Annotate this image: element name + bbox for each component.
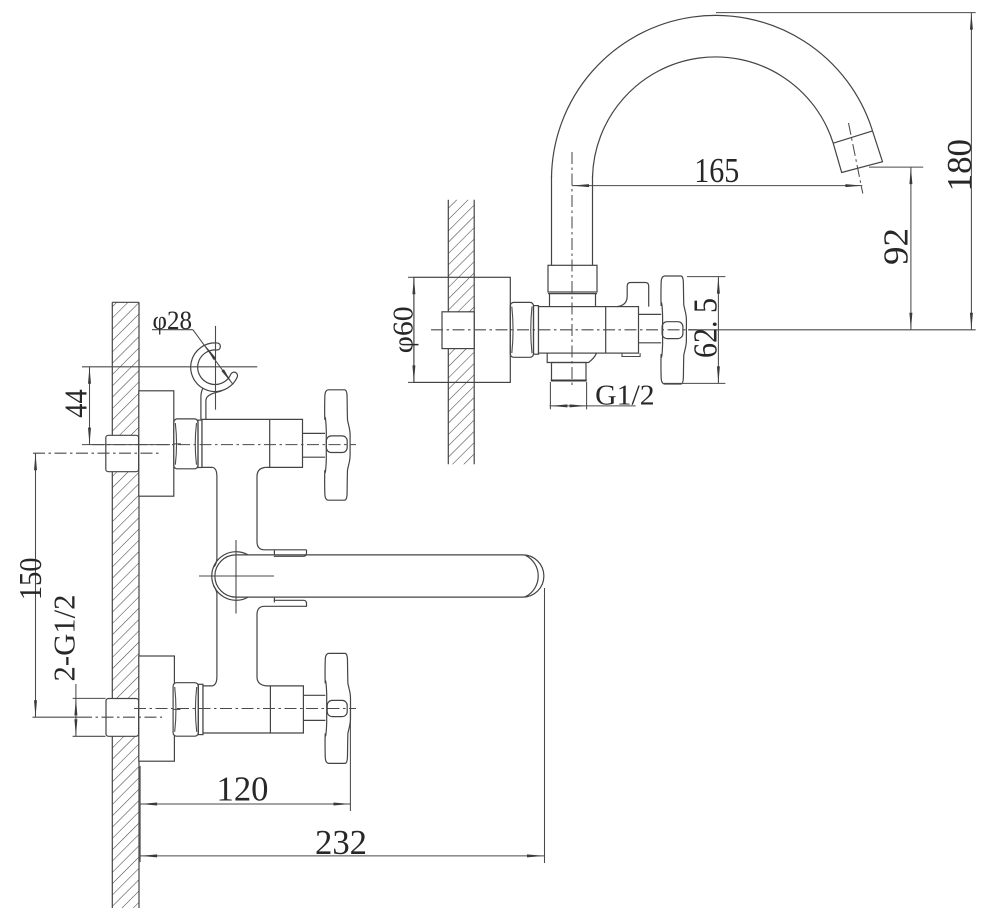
- nozzle end face: [551, 379, 587, 381]
- supply pipe through wall: [442, 312, 474, 349]
- bottom handle hub opening: [327, 700, 347, 716]
- lever pivot inner arc: [215, 555, 236, 597]
- top cross handle (edge-on): [325, 390, 350, 500]
- spout tip centerline: [849, 123, 863, 194]
- svg-text:120: 120: [217, 770, 269, 809]
- connection nut: [510, 302, 533, 357]
- spout lever bar: [236, 555, 544, 597]
- dim G1/2 (outlet): [550, 379, 655, 411]
- svg-text:232: 232: [315, 823, 367, 862]
- outlet ledge: [547, 353, 596, 362]
- svg-text:180: 180: [940, 139, 979, 191]
- wall hook ring (phi28): [191, 343, 238, 392]
- bottom supply pipe through wall: [106, 699, 139, 737]
- bonnet boss: [617, 283, 649, 307]
- cross handle (edge-on): [661, 276, 686, 384]
- svg-text:92: 92: [877, 228, 916, 265]
- bottom escutcheon flange: [139, 656, 175, 761]
- lever pivot crosshair: [199, 540, 274, 614]
- dim 232: [140, 588, 544, 863]
- top pipe reference line: [33, 452, 162, 454]
- dim phi60: [388, 277, 420, 382]
- handle stem (side): [639, 314, 662, 342]
- bonnet divider: [605, 307, 607, 354]
- svg-text:φ28: φ28: [153, 306, 193, 335]
- dim 62.5: [664, 277, 725, 384]
- top connection nut: [174, 419, 198, 469]
- bottom cross handle (edge-on): [325, 653, 350, 763]
- gooseneck inner arc: [593, 57, 834, 177]
- svg-text:2-G1/2: 2-G1/2: [46, 595, 81, 682]
- dim 44: [58, 367, 258, 445]
- dim 150: [12, 453, 48, 717]
- riser vertical centerline: [571, 152, 573, 388]
- svg-text:165: 165: [694, 151, 739, 190]
- lever upper mount plate: [274, 550, 307, 557]
- top escutcheon flange: [139, 391, 174, 496]
- lever lower mount plate: [265, 600, 307, 606]
- gooseneck outer arc: [552, 15, 873, 177]
- svg-text:φ60: φ60: [388, 306, 420, 353]
- spout neck: [550, 294, 596, 307]
- bottom valve centerline: [134, 708, 356, 710]
- trunk right edge lower: [257, 606, 266, 686]
- spout lever pivot outer boss: [212, 552, 248, 601]
- valve body (side): [539, 307, 639, 354]
- svg-text:62. 5: 62. 5: [688, 298, 725, 358]
- bottom pipe centerline: [33, 716, 163, 718]
- top washer ring: [198, 420, 202, 467]
- spout joint cut line: [833, 131, 872, 143]
- collar base line: [548, 293, 597, 295]
- dim 2-G1/2 (inlets): [46, 595, 105, 737]
- bottom handle stem: [303, 695, 325, 720]
- svg-text:150: 150: [12, 558, 48, 601]
- svg-text:44: 44: [58, 389, 94, 418]
- wall (side view, hatched): [448, 200, 474, 465]
- washer ring: [534, 306, 539, 355]
- spout collar: [548, 265, 597, 292]
- lever end outer cap: [526, 555, 539, 596]
- svg-text:G1/2: G1/2: [595, 379, 654, 411]
- top valve body: [202, 419, 303, 467]
- top valve centerline: [92, 444, 356, 446]
- top supply pipe through wall: [106, 435, 139, 471]
- outlet nozzle G1/2: [552, 363, 587, 381]
- bottom connection nut: [173, 683, 198, 737]
- hook vertical centerline: [215, 326, 217, 410]
- bottom washer ring: [198, 684, 203, 734]
- dim 165: [572, 151, 862, 190]
- spout tip nozzle: [833, 131, 882, 173]
- handle hub opening: [662, 322, 683, 339]
- trunk left edge lower: [212, 586, 217, 686]
- top handle stem: [303, 433, 326, 457]
- trunk left edge: [213, 467, 217, 567]
- dim phi28 leader: [152, 306, 234, 385]
- gooseneck riser tube: [552, 176, 593, 265]
- bottom bonnet divider: [269, 686, 271, 733]
- dim 92: [869, 167, 923, 330]
- wall hook stem: [201, 388, 222, 419]
- escutcheon flange (phi60): [414, 277, 510, 382]
- valve horizontal centerline: [431, 329, 697, 331]
- top bonnet divider: [269, 419, 271, 467]
- dim 120: [140, 710, 350, 862]
- trunk right edge upper: [257, 467, 307, 549]
- bonnet foot ledge: [622, 353, 640, 356]
- top handle hub opening: [326, 436, 347, 453]
- wall (front view, hatched): [112, 302, 139, 908]
- bottom valve body: [203, 686, 303, 733]
- dim 180: [688, 13, 979, 330]
